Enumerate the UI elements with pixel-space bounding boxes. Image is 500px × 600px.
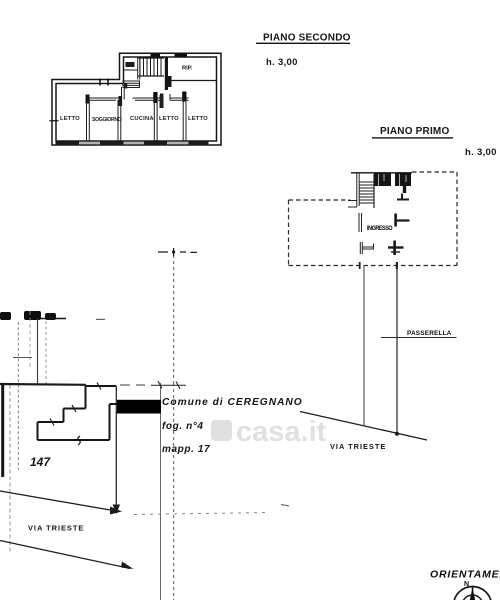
dashed outline right vertical bbox=[456, 172, 458, 266]
arrowhead street line 2 bbox=[121, 562, 134, 570]
title PIANO SECONDO bbox=[256, 33, 351, 45]
small mark left margin mid bbox=[281, 505, 289, 507]
grid line vertical x37 bbox=[37, 318, 39, 385]
reference line with arrow bbox=[115, 386, 117, 508]
dashed outline top-right horizontal bbox=[412, 171, 457, 173]
wall bottom chunk 1 bbox=[56, 141, 80, 145]
wall bottom chunk 3 bbox=[144, 141, 167, 145]
wall bottom chunk 2 bbox=[100, 141, 124, 145]
building black rectangle bbox=[117, 400, 161, 414]
dashed outline bottom horizontal bbox=[289, 265, 458, 267]
line block top A bbox=[0, 383, 86, 386]
stair primo right rail bbox=[373, 174, 375, 208]
svg-text:VIA TRIESTE: VIA TRIESTE bbox=[330, 442, 386, 451]
jamb stub bottom dashed right bbox=[396, 262, 398, 269]
dashed outline top-left horizontal bbox=[289, 199, 351, 201]
line left margin bbox=[40, 318, 66, 320]
svg-text:PASSERELLA: PASSERELLA bbox=[407, 330, 452, 337]
jamb wall 1 bbox=[86, 95, 90, 104]
stair primo treads bbox=[360, 182, 375, 203]
grid line vertical x10 bbox=[9, 385, 11, 552]
jamb wall 4 bbox=[182, 92, 186, 102]
line passerella bbox=[381, 337, 457, 339]
dashed outline left vertical bbox=[288, 200, 290, 266]
tick left wall bbox=[50, 120, 59, 122]
room front wall soggiorno bbox=[90, 98, 120, 100]
outer wall boundary bbox=[52, 53, 221, 145]
jamb stub bottom dashed left bbox=[359, 262, 361, 269]
wall connector to dashed bbox=[348, 201, 357, 208]
partition wall 3 bbox=[154, 97, 157, 141]
svg-text:fog. n°4: fog. n°4 bbox=[162, 421, 204, 432]
svg-text:Comune di CEREGNANO: Comune di CEREGNANO bbox=[162, 397, 303, 408]
svg-text:VIA TRIESTE: VIA TRIESTE bbox=[28, 524, 84, 533]
svg-text:PIANO PRIMO: PIANO PRIMO bbox=[380, 126, 449, 137]
partition wall 4 bbox=[183, 97, 186, 141]
svg-text:INGRESSO: INGRESSO bbox=[367, 226, 393, 232]
window extension top 2 bbox=[175, 53, 188, 56]
window extension top 1 bbox=[151, 53, 161, 56]
grid line vertical x18 bbox=[17, 322, 19, 470]
watermark casa.it bbox=[211, 416, 327, 448]
tick marks on parcel bbox=[50, 383, 101, 426]
svg-text:SOGGIORNO: SOGGIORNO bbox=[92, 117, 122, 123]
jamb wall 2 bbox=[119, 96, 123, 106]
jamb landing left bbox=[124, 83, 127, 89]
grid line vertical x46 bbox=[45, 321, 47, 385]
partition wall 2 bbox=[118, 100, 121, 141]
title PIANO PRIMO bbox=[372, 126, 453, 139]
footprint polygon parcel bbox=[38, 386, 118, 440]
grid line vertical x160 bbox=[160, 383, 162, 600]
wall wc divider bbox=[124, 69, 138, 71]
svg-text:CUCINA: CUCINA bbox=[130, 116, 154, 122]
room front wall cucina bbox=[133, 98, 162, 100]
street line via trieste right bbox=[300, 412, 427, 441]
svg-text:LETTO: LETTO bbox=[60, 116, 80, 122]
wall primo left lower bbox=[359, 213, 362, 232]
window main top wall ticks bbox=[100, 79, 108, 86]
boundary bar left edge bbox=[1, 385, 4, 477]
svg-text:147: 147 bbox=[30, 455, 51, 469]
compass outer circle bbox=[454, 587, 492, 600]
window sill lines bottom bbox=[79, 142, 189, 144]
arrowhead reference line bbox=[113, 505, 121, 515]
junction blob street bbox=[395, 432, 399, 436]
jamb RIP left bbox=[168, 76, 172, 87]
wire line footpath left bbox=[363, 266, 365, 426]
wall piece door jamb A bbox=[397, 194, 409, 200]
wall piece door jamb B bbox=[394, 214, 409, 227]
wall RIP bottom bbox=[170, 80, 217, 82]
svg-text:h. 3,00: h. 3,00 bbox=[465, 147, 497, 158]
jamb wall 3 bbox=[153, 92, 157, 103]
wall primo top bbox=[351, 172, 412, 174]
wall stair left bbox=[138, 57, 140, 80]
crosshair node x173 bbox=[158, 248, 197, 256]
blob wc fixture bbox=[126, 62, 135, 67]
dashed continuation street bbox=[134, 513, 268, 515]
wall stub right of hatch bbox=[403, 186, 406, 193]
compass inner circle bbox=[462, 595, 483, 600]
room front wall letto3 bbox=[170, 94, 189, 100]
wire line footpath right bbox=[396, 266, 398, 435]
wall stair right thick bbox=[165, 57, 168, 90]
svg-text:h. 3,00: h. 3,00 bbox=[266, 57, 298, 68]
crosshair grid node bbox=[13, 357, 32, 359]
squiggle break symbol bbox=[78, 436, 81, 445]
street slanted line 1 bbox=[0, 491, 119, 512]
svg-text:casa.it: casa.it bbox=[236, 416, 327, 448]
stair landing treads bbox=[123, 81, 140, 88]
wall L lower-left bbox=[360, 242, 374, 254]
svg-text:LETTO: LETTO bbox=[188, 116, 208, 122]
svg-text:RIP.: RIP. bbox=[182, 66, 193, 72]
arrowhead street line 1 bbox=[110, 507, 122, 515]
svg-text:ORIENTAMENTO: ORIENTAMENTO bbox=[430, 569, 500, 581]
grid line vertical x173 dotted bbox=[173, 255, 175, 600]
partition wall 1 bbox=[87, 97, 90, 141]
wall primo left double bbox=[357, 173, 359, 207]
grid line vertical x30 bbox=[29, 311, 31, 368]
wall bottom chunk 4 bbox=[189, 141, 209, 145]
jamb cucina right bbox=[160, 94, 163, 105]
wall primo hatched block bbox=[374, 174, 411, 187]
svg-text:PIANO SECONDO: PIANO SECONDO bbox=[263, 33, 351, 44]
wall hall divider bbox=[122, 87, 125, 100]
svg-text:LETTO: LETTO bbox=[159, 116, 179, 122]
compass needle bbox=[472, 587, 474, 600]
tick on line A verticals bbox=[158, 381, 180, 389]
dash left margin bbox=[96, 318, 105, 320]
street slanted line 2 bbox=[0, 541, 130, 569]
wall piece door jamb C bbox=[388, 241, 404, 256]
svg-text:mapp. 17: mapp. 17 bbox=[162, 444, 210, 455]
door leaf cucina-letto bbox=[160, 95, 164, 108]
smudge text left margin bbox=[0, 311, 56, 320]
stair treads top extension bbox=[138, 58, 165, 76]
dashes right of parcel top bbox=[120, 384, 186, 386]
inner wall boundary bbox=[56, 57, 217, 141]
